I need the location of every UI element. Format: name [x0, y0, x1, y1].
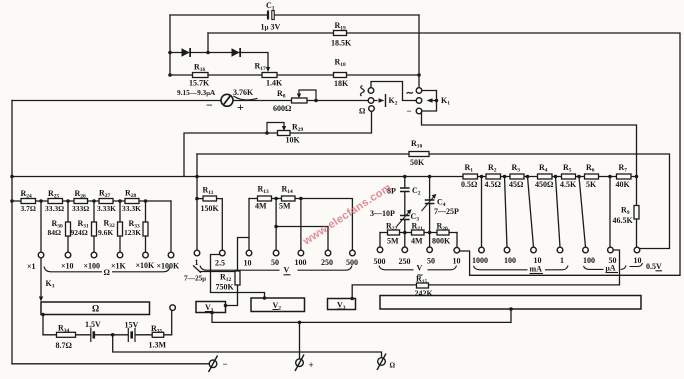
svg-text:3.7Ω: 3.7Ω [21, 204, 36, 213]
svg-text:9.15—9.3μA: 9.15—9.3μA [177, 88, 216, 97]
resistor R5 4.5K [562, 174, 576, 179]
svg-text:100: 100 [583, 256, 595, 265]
node K1 bracket [435, 99, 439, 103]
battery 1.5V [91, 328, 94, 343]
svg-text:R2: R2 [488, 163, 497, 174]
contact 50V [273, 250, 279, 256]
wire contact 10ac riser [456, 233, 458, 248]
svg-text:100: 100 [504, 256, 516, 265]
contact 100mA [504, 247, 510, 253]
switch bar mA uA big box [380, 296, 641, 310]
resistor R4 450ohm [538, 174, 553, 179]
svg-text:C2: C2 [412, 186, 421, 197]
svg-text:×100: ×100 [84, 262, 101, 271]
wire plus terminal riser [299, 322, 301, 359]
svg-text:250: 250 [321, 258, 333, 267]
node ohm box bottom left [41, 313, 45, 317]
node 100uA tap [577, 175, 581, 179]
label mA underline [530, 273, 544, 275]
contact 1V [194, 250, 200, 256]
svg-text:×1: ×1 [27, 262, 36, 271]
svg-text:R34: R34 [58, 324, 70, 335]
resistor R26 333ohm [74, 199, 88, 204]
svg-text:R3: R3 [512, 163, 521, 174]
svg-text:R5: R5 [563, 163, 572, 174]
svg-text:1: 1 [195, 258, 199, 267]
node battery junction [111, 333, 115, 337]
svg-text:4M: 4M [411, 237, 423, 246]
svg-text:mA: mA [530, 265, 543, 274]
svg-text:×1K: ×1K [111, 262, 127, 271]
wire main bus [12, 176, 637, 178]
contact 10V [246, 250, 252, 256]
svg-text:R28: R28 [125, 189, 137, 200]
label V2 underline [273, 309, 279, 311]
svg-text:3.33K: 3.33K [97, 204, 116, 213]
wire left rail [11, 101, 13, 364]
svg-text:500: 500 [374, 257, 386, 266]
contact 500V [350, 250, 356, 256]
svg-text:10K: 10K [286, 136, 301, 145]
node R14 right [299, 197, 303, 201]
svg-text:R9: R9 [621, 206, 630, 217]
label V3 underline [337, 308, 343, 310]
label K2 ac position [360, 86, 364, 97]
svg-text:15.7K: 15.7K [189, 79, 210, 88]
node R29 loop left [265, 131, 269, 135]
contact 250Vac [402, 247, 408, 253]
svg-text:R17: R17 [255, 62, 267, 73]
svg-text:0.5Ω: 0.5Ω [461, 180, 478, 189]
svg-text:R27: R27 [99, 189, 111, 200]
resistor R11 150K [203, 196, 217, 201]
resistor R15 242K [417, 283, 429, 288]
node R18 right [417, 73, 421, 77]
svg-text:50K: 50K [410, 158, 425, 167]
diode D1 bar [189, 48, 191, 57]
switch bar V2 box [251, 298, 305, 312]
wire R16 R17 R18 line [170, 74, 419, 76]
wire R32 shunt [119, 201, 121, 252]
wire R12 top jog to contact 10 riser [238, 238, 250, 272]
resistor R31 924ohm [92, 222, 97, 236]
svg-text:0.5V: 0.5V [646, 262, 662, 271]
node 10mA tap [526, 175, 530, 179]
node diode mid [206, 51, 210, 55]
svg-text:R12: R12 [220, 273, 232, 284]
resistor R2 4.5ohm [486, 174, 501, 179]
svg-text:18K: 18K [334, 79, 349, 88]
wire 1000mA tap [481, 177, 483, 248]
node C4 bus tap [428, 175, 432, 179]
resistor R13 4M [258, 196, 272, 201]
wire ohm box bottom to battery line [42, 315, 44, 335]
battery 15V [128, 328, 135, 342]
wire C4 column [429, 177, 431, 233]
resistor R33 123K [143, 222, 148, 236]
diode D1 [182, 48, 190, 57]
resistor R21 4M [412, 230, 425, 235]
node R11 left [195, 197, 199, 201]
svg-text:150K: 150K [201, 204, 220, 213]
wire contact 500ac riser [379, 233, 381, 248]
svg-text:R19: R19 [335, 21, 347, 32]
resistor R35 1.3M [152, 332, 164, 337]
wire contact 10 riser [248, 199, 250, 251]
node V3 top [350, 297, 354, 301]
svg-text:40K: 40K [616, 180, 631, 189]
switch bar V1 box [196, 302, 226, 313]
arrow K3 wiper [39, 297, 43, 302]
arrow R8 wiper [297, 94, 301, 99]
wire diode line [170, 53, 268, 67]
wire 10mA tap [528, 177, 534, 248]
contact 100uA [583, 247, 589, 253]
svg-text:K3: K3 [46, 279, 55, 290]
svg-text:Ω: Ω [104, 268, 111, 277]
svg-text:450Ω: 450Ω [535, 180, 554, 189]
node V1 bottom [210, 311, 214, 315]
wire K3 wiper to ohm box [40, 258, 42, 300]
svg-text:500: 500 [346, 258, 358, 267]
wire trimmer 7-25u to R12 top [194, 266, 235, 273]
wire vertical diode junction to R19 line [207, 33, 209, 53]
wire minus terminal line [12, 363, 209, 365]
svg-text:84Ω: 84Ω [48, 228, 62, 237]
svg-text:μA: μA [606, 264, 616, 273]
node row R31 [92, 199, 96, 203]
wire K1 top riser from top wire [418, 15, 420, 88]
wire top C1 line [170, 14, 419, 16]
svg-text:10: 10 [453, 257, 461, 266]
svg-text:1.3M: 1.3M [149, 341, 167, 350]
svg-text:R26: R26 [75, 189, 87, 200]
svg-text:1μ 3V: 1μ 3V [261, 23, 281, 32]
svg-text:R10: R10 [411, 139, 423, 150]
svg-text:−: − [206, 98, 213, 112]
svg-text:R20: R20 [437, 222, 449, 233]
wire 1mA tap [556, 177, 561, 248]
node bus left [10, 175, 14, 179]
wire contact 50 riser [275, 199, 277, 251]
node row R32 [118, 199, 122, 203]
svg-text:R18: R18 [335, 58, 347, 69]
node V2 top [263, 296, 267, 300]
svg-text:R8: R8 [277, 89, 286, 100]
svg-text:1: 1 [560, 256, 564, 265]
wire ohm range resistor row [12, 200, 171, 202]
resistor R30 84ohm [66, 222, 71, 236]
svg-text:46.5K: 46.5K [613, 216, 634, 225]
diode D2 bar [239, 48, 241, 57]
wire R30 shunt [67, 201, 69, 252]
switch K2 [368, 88, 385, 112]
node R16 left [168, 73, 172, 77]
svg-text:K1: K1 [441, 96, 450, 107]
resistor R28 33.3K [125, 199, 139, 204]
potentiometer loop R8 [299, 90, 316, 101]
wire contact 100 riser [300, 199, 302, 251]
node 50uA tap [608, 175, 612, 179]
node R8 loop right [314, 99, 318, 103]
resistor R34 8.7ohm [57, 332, 76, 337]
svg-text:33.3K: 33.3K [122, 204, 141, 213]
resistor R22 5M [388, 230, 400, 235]
svg-text:10: 10 [634, 256, 642, 265]
resistor R3 45ohm [510, 174, 524, 179]
svg-text:R14: R14 [282, 185, 294, 196]
svg-text:15V: 15V [125, 321, 139, 330]
svg-text:+: + [237, 100, 244, 114]
brace Vdc group [200, 266, 280, 271]
resistor R19 18.5K [334, 31, 347, 36]
svg-text:R13: R13 [258, 185, 270, 196]
svg-text:R22: R22 [386, 222, 398, 233]
resistor R12 750K [235, 271, 240, 285]
svg-text:×10K: ×10K [136, 261, 156, 270]
contact 10uA 0.5V [634, 247, 640, 253]
switch bar V3 box [328, 299, 356, 310]
wire R19 line to right rail down to 10VAC return [208, 33, 680, 275]
switch bar ohm box [41, 302, 150, 315]
node bus right end [635, 175, 639, 179]
svg-text:−: − [223, 359, 228, 369]
contact x10K [143, 252, 149, 258]
wire 100uA tap [579, 177, 586, 248]
svg-text:R6: R6 [586, 163, 595, 174]
contact 50Vac [427, 247, 433, 253]
resistor R8 600ohm [292, 98, 308, 103]
resistor R32 9.6K [118, 222, 123, 236]
svg-text:−: − [407, 106, 412, 116]
resistor R18 18K [334, 73, 347, 78]
contact 10Vac [454, 247, 460, 253]
node C4 bottom [428, 231, 432, 235]
meter M 9.15-9.3uA [221, 94, 258, 106]
contact 1000mA [479, 247, 485, 253]
contact 100V [298, 250, 304, 256]
arrow R17 wiper [266, 67, 270, 72]
wire 50uA tap [609, 177, 611, 248]
wire R11 to contact 2.5 [197, 199, 222, 251]
wire V1 bottom to big box bottom [212, 309, 511, 322]
node R13 R14 junction [274, 197, 278, 201]
text labels [177, 1, 450, 167]
resistor R14 5M [282, 196, 296, 201]
node row left [10, 199, 14, 203]
wire left vertical from top wire to R16 line [169, 15, 171, 75]
svg-text:5M: 5M [279, 202, 291, 211]
svg-text:1.5V: 1.5V [85, 320, 101, 329]
wire R13 R14 line [249, 199, 352, 251]
svg-text:600Ω: 600Ω [273, 104, 292, 113]
contact 2.5V [220, 250, 226, 256]
svg-text:250: 250 [399, 257, 411, 266]
svg-text:+: + [309, 360, 314, 370]
svg-text:×10: ×10 [61, 262, 74, 271]
svg-text:Ω: Ω [359, 107, 366, 116]
wire contact 2.5 to V2 top [211, 255, 265, 299]
svg-text:10: 10 [244, 259, 252, 268]
svg-text:R4: R4 [539, 163, 548, 174]
svg-text:×100K: ×100K [157, 262, 181, 271]
wire R12 bottom to V1 [226, 285, 238, 306]
node row x1 [39, 199, 43, 203]
svg-text:18.5K: 18.5K [331, 39, 352, 48]
wire K2 top contact to K1 middle contact [371, 82, 416, 101]
label Vdc underline [284, 274, 291, 276]
resistor R20 800K [437, 230, 449, 235]
svg-text:33.3Ω: 33.3Ω [45, 204, 64, 213]
wire meter line [12, 100, 368, 102]
wire 50-250 link bus [276, 227, 328, 251]
wire battery line [43, 310, 172, 334]
svg-text:1.4K: 1.4K [266, 79, 283, 88]
wire 50uA contact down to 242K line to V3 [352, 250, 619, 298]
capacitor C4 7-25P trimmer [422, 194, 437, 211]
capacitor C1 1u 3V [268, 11, 274, 20]
resistor R29 10K [278, 131, 291, 136]
svg-text:R29: R29 [292, 123, 304, 134]
svg-text:R15: R15 [416, 275, 428, 286]
svg-text:4M: 4M [255, 202, 267, 211]
wire contact x1 tap [40, 201, 42, 252]
brace Vac group [379, 266, 414, 270]
resistor R9 46.5K [634, 206, 639, 220]
brace 0.5V link [630, 263, 643, 267]
range group braces [44, 263, 643, 272]
contact 50uA [608, 247, 614, 253]
node plus riser [298, 321, 302, 325]
wire R29 10K line (K2 ohm contact to bus) [184, 111, 372, 176]
resistor R7 40K [617, 174, 632, 179]
svg-text:∼: ∼ [406, 88, 414, 99]
wire x100K tap [170, 201, 172, 252]
contact x1 [38, 252, 44, 258]
svg-text:924Ω: 924Ω [71, 228, 88, 237]
node bus contact1 riser [195, 175, 199, 179]
contact 500Vac [377, 247, 383, 253]
svg-text:3—10P: 3—10P [370, 209, 395, 218]
svg-text:2.5: 2.5 [215, 259, 225, 268]
diode D2 [232, 48, 240, 57]
resistor R1 0.5ohm [463, 174, 478, 179]
svg-text:R24: R24 [21, 189, 33, 200]
svg-text:3.76K: 3.76K [233, 88, 254, 97]
resistor R6 5K [585, 174, 599, 179]
wire contact 50ac riser [429, 233, 431, 248]
node 100mA tap [503, 175, 507, 179]
svg-text:R1: R1 [465, 163, 474, 174]
svg-text:123K: 123K [124, 228, 141, 237]
svg-text:V: V [284, 266, 290, 275]
svg-text:Ω: Ω [92, 304, 99, 314]
resistor R17 1.4K potentiometer [262, 73, 277, 78]
svg-text:R21: R21 [412, 222, 424, 233]
node row R30 [66, 199, 70, 203]
wire C2 C3 column [404, 177, 406, 233]
node C3 bottom [403, 231, 407, 235]
contact x100 [91, 252, 97, 258]
wire contact 250ac riser [404, 233, 406, 248]
node diode left [168, 51, 172, 55]
node 50V link [274, 225, 278, 229]
terminal minus [209, 356, 218, 373]
brace uA group [584, 266, 604, 270]
capacitor C3 3-10P trimmer [397, 209, 412, 226]
node row R33 [144, 199, 148, 203]
resistor R16 15.7K [193, 73, 209, 78]
svg-text:R25: R25 [48, 189, 60, 200]
svg-text:R35: R35 [151, 324, 163, 335]
brace mA group [474, 266, 528, 270]
potentiometer loop R29 [267, 123, 284, 134]
resistor R25 33.3ohm [48, 199, 63, 204]
svg-text:750K: 750K [216, 283, 235, 292]
resistor R24 3.7ohm [21, 199, 36, 204]
terminal plus [295, 355, 304, 372]
contact 1mA [557, 247, 563, 253]
svg-text:R7: R7 [619, 163, 628, 174]
contact x10 [65, 252, 71, 258]
svg-text:7—25μ: 7—25μ [184, 274, 206, 283]
wire R31 shunt [93, 201, 95, 252]
contact 10mA [531, 247, 537, 253]
wire R33 shunt [145, 201, 147, 252]
svg-text:800K: 800K [432, 237, 451, 246]
svg-text:1000: 1000 [472, 256, 488, 265]
capacitor C2 8P [400, 188, 410, 192]
switch K1 [416, 88, 436, 114]
node V1 right [224, 304, 228, 308]
label uA underline [606, 272, 619, 274]
selector contacts row [38, 247, 640, 310]
label V1 underline [205, 311, 211, 313]
wire AC resistor row [380, 232, 457, 234]
contact battery branch output [170, 305, 176, 311]
svg-text:50: 50 [271, 258, 279, 267]
brace ohm group [44, 267, 102, 272]
node 1mA tap [554, 175, 558, 179]
label 0.5V underline [656, 270, 663, 272]
svg-text:R16: R16 [194, 63, 206, 74]
svg-text:45Ω: 45Ω [509, 180, 524, 189]
wire K1 bottom to right end of bus [422, 112, 637, 177]
svg-text:50: 50 [427, 257, 435, 266]
svg-text:242K: 242K [415, 289, 434, 298]
node C2 bus tap [403, 175, 407, 179]
contact 250V [325, 250, 331, 256]
svg-text:7—25P: 7—25P [434, 207, 459, 216]
wire 100mA tap [505, 177, 508, 248]
node big box bottom [509, 307, 513, 311]
wire battery junction to ohm terminal [113, 335, 382, 358]
svg-text:C1: C1 [266, 1, 275, 12]
svg-text:5M: 5M [387, 237, 399, 246]
svg-text:4.5K: 4.5K [560, 180, 577, 189]
arrow R29 wiper [282, 126, 286, 131]
svg-text:9.6K: 9.6K [98, 228, 113, 237]
contact x1K [117, 252, 123, 258]
resistor R10 50K [409, 152, 429, 157]
svg-text:K2: K2 [389, 96, 398, 107]
wire contact 1 riser [196, 154, 198, 250]
svg-text:100: 100 [295, 258, 307, 267]
contact x100K [168, 252, 174, 258]
svg-text:4.5Ω: 4.5Ω [485, 180, 502, 189]
svg-text:5K: 5K [586, 180, 597, 189]
svg-text:Ω: Ω [390, 362, 396, 370]
